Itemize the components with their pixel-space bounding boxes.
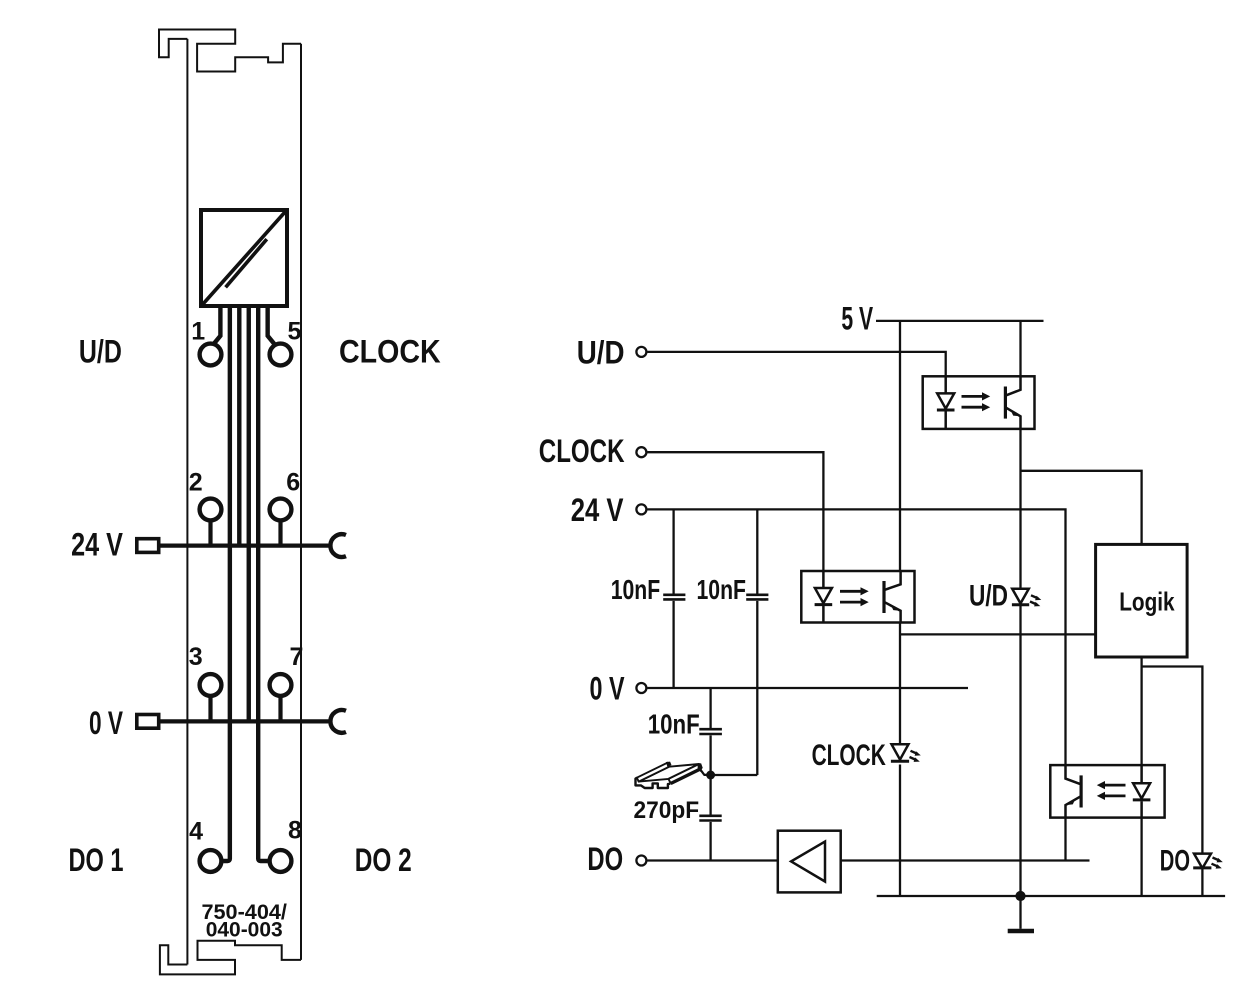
wire 5V to U2 collector (899, 321, 901, 571)
24V connector rectangle symbol (137, 539, 159, 553)
wire U1 emitter to Logik input (1021, 471, 1142, 545)
capacitor C4 270pF leg top (709, 775, 711, 815)
wire 5V to U1 collector (1019, 321, 1021, 376)
wire U3 LED cathode to ground rail (1140, 818, 1142, 896)
svg-text:5: 5 (288, 318, 302, 346)
ground rail (877, 895, 1225, 897)
U3 LED (1140, 765, 1143, 783)
svg-text:7: 7 (290, 643, 304, 671)
module left edge (186, 39, 188, 965)
capacitor C2 10nF leg top (756, 509, 758, 593)
svg-text:U/D: U/D (79, 334, 122, 370)
0V clamp hook (330, 710, 346, 733)
U1 LED (944, 376, 947, 393)
capacitor C4 plates (699, 816, 721, 821)
rail near flange tip (698, 763, 703, 772)
svg-text:5 V: 5 V (841, 301, 873, 337)
junction dot rail/capacitors (706, 771, 715, 780)
wire branch to DO LED (1142, 667, 1203, 854)
wire junction dot to C2 (711, 774, 758, 776)
wire buffer to U3 emitter (841, 859, 1090, 861)
terminal 3 (200, 674, 222, 696)
capacitor C1 leg bottom (672, 601, 674, 688)
svg-text:270pF: 270pF (634, 797, 700, 824)
wire block to 0V rail (247, 306, 251, 721)
wire DO LED to ground rail (1201, 868, 1203, 897)
rail tip to junction wire (701, 770, 709, 775)
rail near flange (669, 764, 701, 783)
capacitor C3 leg bottom (709, 735, 711, 775)
wire CLOCK LED to ground rail (899, 765, 901, 897)
input terminal 0V (636, 683, 646, 693)
svg-text:DO: DO (587, 841, 623, 877)
rail far flange (637, 763, 669, 782)
svg-text:4: 4 (189, 818, 203, 846)
svg-text:DO 1: DO 1 (69, 842, 124, 878)
U2 LED (822, 571, 825, 588)
capacitor C2 plates (746, 595, 768, 600)
rail near flange underside (670, 768, 702, 785)
terminal 1 (200, 344, 222, 366)
svg-text:2: 2 (189, 469, 203, 497)
module top contour (159, 30, 301, 72)
stem terminal 6 (278, 520, 282, 546)
U1 phototransistor (1004, 387, 1007, 419)
optocoupler U2 box (801, 571, 914, 623)
capacitor C3 10nF leg top (709, 688, 711, 728)
svg-text:0 V: 0 V (89, 705, 123, 741)
svg-text:U/D: U/D (969, 580, 1008, 613)
optocoupler U1 box (923, 376, 1035, 429)
terminal 8 (270, 850, 292, 872)
CLOCK indicator LED (891, 744, 921, 762)
svg-text:1: 1 (191, 318, 205, 346)
capacitor C4 leg bottom (709, 822, 711, 861)
stem terminal 2 (208, 520, 212, 546)
capacitor C1 10nF leg top (672, 509, 674, 593)
wire U2 emitter to Logik (900, 633, 1096, 635)
svg-text:10nF: 10nF (611, 574, 661, 605)
svg-text:10nF: 10nF (648, 709, 700, 740)
input terminal U/D (636, 347, 646, 357)
svg-text:Logik: Logik (1119, 586, 1175, 616)
svg-text:040-003: 040-003 (206, 919, 283, 942)
U2 phototransistor (882, 581, 885, 613)
stem terminal 3 (208, 696, 212, 722)
DO indicator LED (1193, 854, 1223, 869)
5V rail (876, 320, 1044, 322)
svg-text:6: 6 (286, 469, 300, 497)
wire U/D to optocoupler U1 (648, 352, 946, 376)
svg-text:DO: DO (1160, 845, 1190, 878)
wire block to terminal 5 (268, 306, 275, 344)
optocoupler U3 box (reversed) (1050, 765, 1164, 818)
stem terminal 7 (278, 696, 282, 722)
DO line driver buffer (778, 831, 841, 893)
capacitor C1 plates (663, 595, 685, 600)
capacitor C3 plates (699, 729, 722, 734)
terminal 4 (200, 850, 222, 872)
wire 0V rail (648, 687, 969, 689)
module bottom contour (160, 941, 301, 975)
rail foot cross-section (636, 778, 671, 788)
input terminal CLOCK (636, 447, 646, 457)
U2 light arrows (840, 590, 861, 593)
wire CLOCK to optocoupler U2 (648, 452, 824, 571)
rail far flange end cap (666, 762, 672, 767)
module right edge (300, 44, 302, 960)
block second diagonal (226, 239, 267, 287)
24V clamp hook (330, 534, 346, 557)
terminal 7 (270, 674, 292, 696)
0V field line (159, 719, 332, 723)
junction dot ground (1015, 891, 1025, 901)
svg-text:DO 2: DO 2 (355, 842, 412, 878)
wire U/D LED to ground junction (1019, 605, 1021, 896)
wire block to 24V rail (237, 306, 241, 546)
U3 light arrows (pointing left) (1105, 784, 1126, 787)
svg-text:8: 8 (288, 817, 302, 845)
U1 light arrows (962, 395, 983, 398)
0V connector rectangle symbol (137, 715, 159, 729)
input terminal DO (636, 856, 646, 866)
svg-text:CLOCK: CLOCK (539, 433, 625, 469)
24V field line (159, 543, 332, 547)
wire block to terminal 1 (214, 306, 221, 344)
terminal 2 (200, 499, 222, 521)
ground symbol (1008, 896, 1034, 931)
wire U3 emitter to DO line (1064, 818, 1066, 861)
svg-text:0 V: 0 V (590, 671, 625, 707)
svg-text:10nF: 10nF (697, 574, 747, 605)
capacitor C2 leg bottom (756, 601, 758, 775)
rail channel floor (639, 764, 699, 782)
wire DO to buffer (648, 859, 778, 861)
terminal 5 (270, 344, 292, 366)
svg-text:24 V: 24 V (571, 492, 624, 528)
wire U1 emitter to U/D LED (1019, 429, 1021, 589)
DIN rail symbol (636, 762, 709, 788)
electronics block symbol (201, 210, 287, 306)
svg-text:CLOCK: CLOCK (812, 739, 886, 772)
wire Logik to U3 LED anode (1140, 657, 1142, 765)
svg-text:24 V: 24 V (71, 526, 123, 562)
svg-text:CLOCK: CLOCK (339, 334, 441, 370)
input terminal 24V (636, 504, 646, 514)
svg-text:U/D: U/D (577, 335, 625, 371)
wire 24V rail to optocoupler U3 collector (648, 509, 1066, 765)
svg-text:3: 3 (189, 643, 203, 671)
Logik box (1096, 544, 1188, 657)
terminal 6 (270, 499, 292, 521)
schematic net labels (539, 301, 874, 878)
U/D indicator LED (1012, 589, 1041, 607)
wire U2 emitter to CLOCK LED (899, 623, 901, 745)
U3 phototransistor (mirrored) (1079, 775, 1082, 807)
block main diagonal (203, 212, 285, 304)
wire block to terminal 8 (258, 306, 267, 861)
wire block to terminal 4 (223, 306, 229, 861)
